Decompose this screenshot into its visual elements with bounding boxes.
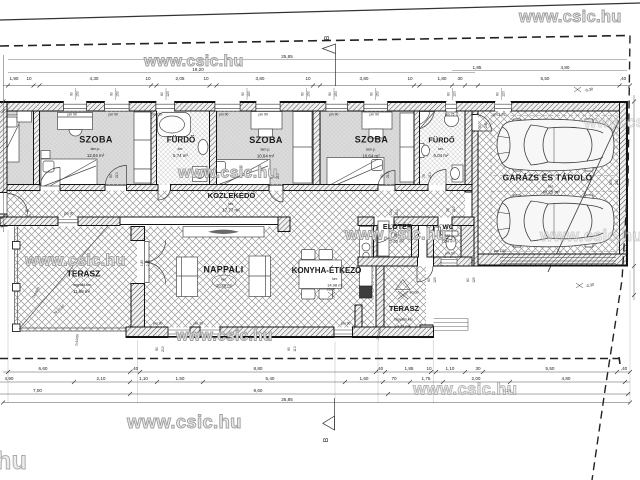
svg-text:,40: ,40 [621,366,628,371]
svg-text:pm 1,20: pm 1,20 [493,113,505,117]
car 1 garage [497,119,614,171]
svg-text:500: 500 [609,179,613,185]
svg-text:pm 90: pm 90 [109,113,119,117]
svg-text:120: 120 [472,277,476,283]
svg-text:fagyálló ker.: fagyálló ker. [394,318,413,322]
svg-text:www.csic.hu: www.csic.hu [126,411,242,432]
room floor: nappali + konyha coarse hatch [145,227,375,328]
svg-text:pm 90: pm 90 [445,252,455,256]
door arc wc entry [438,226,452,240]
svg-text:90: 90 [370,92,374,96]
level marker garage [574,87,581,92]
svg-text:9,60: 9,60 [254,388,263,393]
svg-text:90: 90 [70,92,74,96]
svg-text:1,85: 1,85 [405,366,414,371]
room floor: kozlekedo hallway [7,191,465,218]
door arcs terasz double door [149,241,166,262]
svg-text:TERASZ: TERASZ [67,269,101,279]
north wall segments [0,102,64,112]
svg-text:150: 150 [247,91,251,97]
konyha se corner wall [355,305,362,338]
property line dashed top [0,36,630,47]
top dim line 19.20 [8,72,475,74]
room floor: left cut room [0,111,34,185]
svg-text:4,80: 4,80 [561,65,570,70]
door arc left room [40,168,60,188]
wall szoba3/furdo2 [414,111,420,191]
nappali west wall upper [131,227,145,241]
svg-text:90: 90 [25,209,29,213]
kitchen counter [360,227,373,289]
wall szoba1 west [34,111,40,191]
svg-text:120: 120 [433,277,437,283]
svg-text:±0,00: ±0,00 [409,291,418,295]
svg-text:120: 120 [453,91,457,97]
top dim chain line [3,85,630,87]
door arc eloter entry [377,226,394,243]
svg-text:pm 120: pm 120 [151,113,162,117]
svg-text:17,77 m²: 17,77 m² [222,208,240,213]
svg-text:fagyálló ker.: fagyálló ker. [73,283,92,287]
svg-text:10: 10 [26,76,32,81]
garage slope diagonal over cars [548,112,623,272]
svg-text:20,28 m²: 20,28 m² [216,283,232,288]
section B top [323,44,336,86]
svg-text:210: 210 [386,172,390,178]
eloter cabinet [378,221,389,256]
svg-text:10: 10 [145,76,151,81]
svg-text:100: 100 [389,209,393,215]
wardrobe left room [17,111,32,123]
svg-text:25,85: 25,85 [281,397,293,402]
svg-text:pm 90: pm 90 [259,113,269,117]
svg-text:ker.: ker. [178,147,184,151]
svg-text:1,85: 1,85 [473,65,482,70]
wall szoba1/furdo1 [151,111,157,191]
wardrobe szoba1 right [134,112,151,169]
svg-text:30: 30 [475,366,481,371]
bottom dim row2 [0,381,630,383]
svg-text:pm 30: pm 30 [64,212,74,216]
terasz1 posts [13,242,21,332]
svg-text:25,85: 25,85 [281,54,293,59]
top dim line 25.85 [8,59,627,61]
bathtub furdo1 [158,113,191,137]
svg-text:1,50: 1,50 [176,376,185,381]
svg-text:90: 90 [241,92,245,96]
parking bay dashed 1 [491,116,617,176]
svg-text:www.csic.hu: www.csic.hu [175,328,273,345]
south wall segments [126,327,168,338]
svg-text:210: 210 [395,209,399,215]
right vertical dim line [633,95,635,300]
kitchen chairs [302,250,316,260]
svg-text:KONYHA-ÉTKEZŐ: KONYHA-ÉTKEZŐ [292,266,362,275]
svg-text:2,05: 2,05 [176,76,185,81]
sink furdo1 [198,140,208,155]
svg-text:1,90: 1,90 [10,76,19,81]
svg-text:3,80: 3,80 [256,76,265,81]
wc bowl furdo2 left [420,144,425,158]
garage west wall upper stub [472,111,478,115]
svg-text:www.csic.hu: www.csic.hu [412,380,517,399]
svg-text:90: 90 [155,347,159,351]
room floor: szoba 3 [320,111,414,185]
svg-text:pm 30: pm 30 [153,322,163,326]
eloter/wc divider wall a [412,226,419,258]
armchair nappali right [249,256,271,297]
nightstand szoba1 [41,151,50,159]
terasz1 slope diagonal [19,221,112,329]
door arc furdo1 [158,188,171,201]
section B bottom [323,398,335,430]
svg-text:KÖZLEKEDŐ: KÖZLEKEDŐ [208,191,256,200]
bedrooms south wall segments [7,185,40,191]
svg-text:5,74 m²: 5,74 m² [173,153,188,158]
svg-text:120: 120 [502,91,506,97]
svg-text:75: 75 [446,208,450,212]
west wall (cut) upper [0,102,7,193]
room floor: szoba 1 [40,111,152,185]
bed szoba1 [41,159,97,186]
svg-text:150: 150 [376,91,380,97]
washing machine furdo1 [193,167,208,182]
svg-text:150: 150 [76,91,80,97]
heavy outer contour lines [0,102,628,337]
svg-text:pm 75: pm 75 [445,113,455,117]
svg-text:lam.p.: lam.p. [261,148,271,152]
svg-text:5,50: 5,50 [546,366,555,371]
nappali west wall lower [131,284,145,338]
door arc szoba2 [269,188,283,202]
garage slope diagonal [548,112,623,272]
room floor: furdo 1 fine hatch [157,111,210,185]
svg-text:60: 60 [427,278,431,282]
wall szoba2/szoba3 [313,111,320,191]
svg-text:1,80: 1,80 [140,260,144,267]
svg-text:FÜRDŐ: FÜRDŐ [167,136,195,145]
terasz1 slab edge lines [15,227,138,332]
door arc szoba1 [7,115,492,284]
svg-text:150: 150 [334,91,338,97]
bed left room [0,115,19,162]
bottom dim row3 [0,393,630,395]
shelf szoba1 right low [134,169,151,183]
steps east of terasz2 [434,319,469,331]
svg-text:12,04 m²: 12,04 m² [87,153,105,158]
room floor: garage coarse hatch [478,111,620,254]
svg-text:10: 10 [203,76,209,81]
svg-text:www.csic.hu: www.csic.hu [539,227,640,245]
room floor: terasz 1 coarse hatch [14,227,137,332]
bedroom floor texture overlays [0,111,34,185]
svg-text:FÜRDŐ: FÜRDŐ [428,136,455,145]
svg-text:6,60: 6,60 [39,366,48,371]
hallway south wall segments [0,217,58,226]
guide lines to bottom dims [8,230,630,403]
svg-text:TERASZ: TERASZ [389,304,420,313]
svg-text:5,04 m²: 5,04 m² [434,153,449,158]
svg-text:3,80: 3,80 [360,76,369,81]
svg-text:±0,00: ±0,00 [327,288,336,292]
west wall (cut) lower [0,214,7,226]
windows south walls [58,220,616,338]
svg-text:ker.: ker. [221,278,227,282]
shower furdo2 [420,112,435,130]
wall furdo1/szoba2 [210,111,217,191]
dressing table szoba1 [58,113,93,130]
svg-text:90: 90 [301,92,305,96]
pm sill labels south [64,212,506,326]
svg-text:60: 60 [160,92,164,96]
svg-text:B: B [324,35,331,40]
garage east wall [620,102,628,267]
parking bay dashed 2 [491,192,617,252]
svg-text:GARÁZS ÉS TÁROLÓ: GARÁZS ÉS TÁROLÓ [503,172,593,183]
svg-text:8,80: 8,80 [254,366,263,371]
bed szoba2 [213,160,271,186]
bottom dashed boundary [0,358,619,360]
garage west wall lower [472,131,478,266]
door size labels [25,122,619,266]
svg-text:pm 90: pm 90 [329,113,339,117]
svg-text:210: 210 [161,346,165,352]
svg-text:90: 90 [478,124,482,128]
svg-text:1,10: 1,10 [139,376,148,381]
svg-text:4,90: 4,90 [5,376,14,381]
level marker driveway [576,283,583,288]
svg-text:ker.: ker. [228,202,234,206]
svg-text:pm 30: pm 30 [194,322,204,326]
svg-text:40,25 m²: 40,25 m² [542,190,560,195]
svg-text:240: 240 [484,122,488,128]
svg-text:www.csic.hu: www.csic.hu [518,8,622,26]
level marker terasz2 [396,280,411,300]
svg-text:60: 60 [496,92,500,96]
wardrobe szoba2 right [293,112,312,184]
door arc eloter to terasz2 [417,266,433,282]
toilet furdo2 bottom [452,165,463,182]
property line solid slanted [0,3,640,20]
svg-text:11,68 m²: 11,68 m² [73,289,91,294]
svg-text:10,64 m²: 10,64 m² [257,154,275,159]
svg-text:www.csic.hu: www.csic.hu [24,252,126,270]
svg-text:110: 110 [293,346,297,352]
svg-text:,40: ,40 [620,76,627,81]
door arc szoba3 [378,171,395,188]
svg-text:5,50: 5,50 [541,76,550,81]
svg-text:2,10: 2,10 [97,376,106,381]
room floor: wc [434,224,462,257]
svg-text:10: 10 [305,76,311,81]
pier rotated dims [70,91,506,97]
property line dashed right [592,36,630,480]
svg-text:4,80: 4,80 [562,376,571,381]
sink furdo2 [445,113,459,127]
svg-text:SZOBA: SZOBA [355,135,389,145]
svg-text:210: 210 [25,214,31,218]
furniture [0,111,623,300]
level marker nappali [328,292,335,298]
svg-text:90: 90 [287,347,291,351]
door arc hallway west exit [7,194,28,215]
svg-text:pm 90: pm 90 [219,113,229,117]
top chain ticks [6,84,632,88]
svg-text:4,30: 4,30 [90,76,99,81]
stove kitchen [360,286,373,298]
svg-text:240: 240 [615,179,619,185]
svg-text:7,00: 7,00 [33,388,42,393]
svg-text:pm 90: pm 90 [370,113,380,117]
svg-text:210: 210 [428,172,432,178]
floors [0,111,623,338]
svg-text:10: 10 [426,366,432,371]
svg-text:120: 120 [166,91,170,97]
wardrobe szoba2 top [251,112,282,130]
pm sill labels north [68,113,506,117]
terasz2 corner post [420,325,433,338]
svg-text:SZOBA: SZOBA [79,135,113,145]
svg-text:1,80: 1,80 [438,76,447,81]
wc south wall [434,257,473,266]
terasz2 west wall [376,266,384,332]
svg-text:ker.: ker. [548,185,554,189]
armchair nappali left [177,257,198,297]
svg-text:ker.: ker. [332,277,338,281]
svg-text:150: 150 [116,91,120,97]
svg-text:60: 60 [447,92,451,96]
svg-text:ker.: ker. [438,147,444,151]
svg-text:1,60: 1,60 [360,376,369,381]
door arc furdo2 [428,170,446,188]
svg-text:www.csic.hu: www.csic.hu [583,114,640,131]
wardrobe szoba3 right [400,113,415,182]
svg-text:SZOBA: SZOBA [249,135,283,145]
svg-text:www.csic.hu: www.csic.hu [143,53,244,70]
eloter west wall thin partition [374,226,378,267]
svg-text:www.csic.hu: www.csic.hu [344,226,446,244]
svg-text:2,40: 2,40 [146,260,150,267]
wall furdo2 east [465,111,472,192]
kitchen table [299,260,342,289]
wc east wall [461,226,474,267]
toilet wc room [445,231,458,236]
svg-text:pm 1,20: pm 1,20 [494,249,506,253]
walls [0,102,628,338]
pier dim separator lines [76,88,502,100]
door arc garage side door [475,115,492,132]
svg-text:,40: ,40 [132,366,139,371]
svg-text:150: 150 [307,91,311,97]
svg-text:3,11 m²: 3,11 m² [397,324,411,329]
svg-text:NAPPALI: NAPPALI [203,265,243,275]
svg-text:70: 70 [391,376,397,381]
svg-text:210: 210 [115,172,119,178]
svg-text:5,40: 5,40 [266,376,275,381]
room floor: szoba 2 [217,111,314,185]
svg-text:pm 90: pm 90 [341,322,351,326]
svg-text:90: 90 [380,174,384,178]
bed szoba3 [327,158,384,185]
eloter south wall [358,257,418,266]
svg-text:lam.p.: lam.p. [91,147,101,151]
svg-text:B: B [323,437,330,442]
openings [0,0,1,1]
room floor: eloter [377,224,412,257]
room floor: terasz 2 coarse hatch [382,266,426,328]
sofa nappali [183,227,264,238]
svg-text:10: 10 [407,76,413,81]
eloter/wc divider wall b [427,226,434,258]
svg-text:90: 90 [328,92,332,96]
room floor: furdo 2 fine hatch [420,111,466,185]
svg-text:90: 90 [109,174,113,178]
garage south wall [478,254,628,266]
svg-text:1,10: 1,10 [446,366,455,371]
svg-text:60: 60 [466,278,470,282]
svg-text:210: 210 [452,206,456,212]
svg-text:pm 90: pm 90 [68,113,78,117]
top dim line right 1.85 4.80 [452,70,627,72]
svg-text:lam.p.: lam.p. [366,148,376,152]
car 2 garage [497,195,614,247]
left vertical dim line [3,55,5,232]
svg-text:90: 90 [110,92,114,96]
svg-text:75: 75 [422,174,426,178]
svg-text:30: 30 [457,76,463,81]
bottom dim row4 [3,402,630,404]
svg-text:www.csic.hu: www.csic.hu [177,165,278,182]
openings [7,102,616,337]
windows north wall [64,102,512,111]
svg-text:hu: hu [0,447,27,475]
wardrobe szoba3 top [362,112,392,129]
svg-text:10,64 m²: 10,64 m² [362,154,380,159]
window size labels below south wall [155,252,476,352]
sink wc room [435,227,441,236]
bottom dim row1 [3,371,630,373]
